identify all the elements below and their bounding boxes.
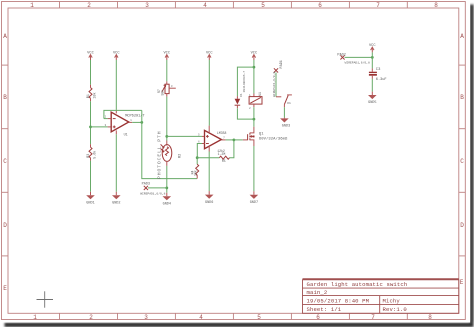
wire VCC6 to C3 <box>371 52 373 68</box>
supply VCC3 <box>163 52 170 60</box>
wire PAD3 to photocell bottom node <box>148 187 167 189</box>
svg-text:4: 4 <box>203 2 207 9</box>
svg-text:MCP6291/T: MCP6291/T <box>125 114 145 119</box>
svg-text:4: 4 <box>199 314 203 321</box>
junction U2 output node <box>233 139 236 142</box>
op-amp U2 <box>198 126 226 152</box>
relay coil K1 <box>249 92 262 110</box>
svg-text:D1: D1 <box>240 93 243 97</box>
svg-text:8: 8 <box>428 314 432 321</box>
svg-text:GND2: GND2 <box>112 201 120 205</box>
wire divider node to U1 plus input <box>91 126 112 128</box>
resistor R1 <box>87 85 98 101</box>
capacitor C3 <box>369 68 387 82</box>
svg-text:Sheet: 1/1: Sheet: 1/1 <box>307 306 342 313</box>
wire minus node to R5 <box>197 157 219 159</box>
wire R5 to U2 output node <box>230 140 234 158</box>
svg-text:WIREPAD1,6/0,8: WIREPAD1,6/0,8 <box>140 191 165 195</box>
ground GND6 <box>205 191 214 205</box>
wire VCC3 rail to trimmer <box>166 60 168 81</box>
svg-text:19/05/2017 8:40 PM: 19/05/2017 8:40 PM <box>307 298 370 305</box>
wire U1 feedback loop <box>104 110 142 118</box>
svg-text:1: 1 <box>30 2 34 9</box>
svg-text:R3: R3 <box>87 154 91 158</box>
wire PAD1 to relay contact <box>275 73 277 97</box>
svg-text:PAD2: PAD2 <box>337 53 345 57</box>
wire Q1 source to GND7 <box>253 146 255 191</box>
svg-text:A: A <box>3 33 7 40</box>
svg-text:GND1: GND1 <box>86 201 94 205</box>
svg-text:10k: 10k <box>193 170 197 176</box>
supply VCC5 <box>251 52 258 60</box>
svg-text:B: B <box>460 94 464 101</box>
junction relay top node <box>253 66 256 69</box>
svg-text:3: 3 <box>144 314 148 321</box>
svg-text:Rev:1.0: Rev:1.0 <box>383 306 408 313</box>
ground GND3 <box>280 118 290 129</box>
wire VCC4 rail to U2 power <box>208 60 210 126</box>
wire U2 output <box>221 139 234 141</box>
supply VCC6 <box>369 44 376 52</box>
supply VCC1 <box>87 52 94 60</box>
supply VCC2 <box>113 52 120 60</box>
svg-text:GND6: GND6 <box>205 201 213 205</box>
svg-text:6: 6 <box>316 314 320 321</box>
svg-text:2: 2 <box>89 314 93 321</box>
svg-text:B: B <box>3 94 7 101</box>
svg-text:3: 3 <box>145 2 149 9</box>
title block <box>303 279 459 313</box>
svg-text:main_2: main_2 <box>307 289 328 296</box>
wire U1 power to GND2 <box>115 134 117 192</box>
svg-text:C: C <box>3 158 7 165</box>
origin crosshair <box>37 291 54 307</box>
wire U1 output down and across to R4 <box>142 110 197 178</box>
svg-text:5.6k: 5.6k <box>93 151 98 159</box>
wire R1 to divider node <box>90 101 92 144</box>
svg-text:PHOTOCELL PTH: PHOTOCELL PTH <box>157 131 163 179</box>
junction divider node <box>89 126 92 129</box>
svg-text:7: 7 <box>376 2 380 9</box>
svg-text:PAD1: PAD1 <box>280 60 284 68</box>
svg-text:60V/32A/36mΩ: 60V/32A/36mΩ <box>259 136 288 141</box>
wirepad PAD1 <box>272 60 284 97</box>
svg-text:R5: R5 <box>222 159 226 163</box>
svg-text:D: D <box>460 222 464 229</box>
mosfet Q1 <box>248 127 288 146</box>
junction photocell top node <box>165 135 168 138</box>
wire contact common to GND3 <box>283 107 285 117</box>
svg-text:10k: 10k <box>93 92 98 98</box>
wire photocell node to U2 plus input <box>167 135 205 137</box>
resistor R4 <box>190 158 198 179</box>
wirepad PAD3 <box>140 183 165 196</box>
svg-text:U1: U1 <box>124 134 128 138</box>
wire relay top to diode branch <box>237 67 254 96</box>
supply VCC4 <box>206 52 213 60</box>
svg-text:5: 5 <box>261 2 265 9</box>
svg-text:1: 1 <box>33 314 37 321</box>
wire U2 power to GND6 <box>208 152 210 192</box>
svg-text:2: 2 <box>87 2 91 9</box>
wire PAD2 to VCC6 rail <box>345 56 373 58</box>
svg-text:6: 6 <box>318 2 322 9</box>
wirepad PAD2 <box>337 53 370 64</box>
svg-text:1.2M: 1.2M <box>218 152 226 156</box>
wire C3 to GND5 <box>371 79 373 92</box>
svg-text:D: D <box>3 222 7 229</box>
svg-text:Michy: Michy <box>383 298 401 305</box>
svg-text:Garden light automatic switch: Garden light automatic switch <box>307 281 408 288</box>
wire U1 minus input stub <box>104 118 111 120</box>
relay contact K1 <box>276 95 292 107</box>
photocell R2 <box>157 131 183 179</box>
svg-text:WIREPAD1,6/0,8: WIREPAD1,6/0,8 <box>345 60 370 64</box>
svg-text:6.3uF: 6.3uF <box>376 78 387 82</box>
svg-text:1N4148DO35-7: 1N4148DO35-7 <box>243 71 246 93</box>
svg-text:7: 7 <box>371 314 375 321</box>
wire diode bottom to relay bottom node <box>237 108 254 119</box>
svg-text:K1: K1 <box>287 102 291 105</box>
trimmer R7 <box>157 81 176 96</box>
svg-text:K1: K1 <box>258 92 262 96</box>
svg-text:A: A <box>460 33 464 40</box>
ground GND4 <box>163 193 172 207</box>
op-amp U1 <box>105 110 146 138</box>
svg-text:50k: 50k <box>160 90 164 96</box>
svg-text:GND7: GND7 <box>250 201 258 205</box>
ground GND1 <box>86 192 95 206</box>
wire VCC2 rail to U1 power <box>115 60 117 110</box>
svg-text:R2: R2 <box>179 154 183 158</box>
resistor R3 <box>87 144 98 161</box>
ground GND2 <box>112 192 121 206</box>
wire relay bottom to Q1 drain <box>253 107 255 119</box>
svg-text:E: E <box>3 285 7 292</box>
svg-text:C3: C3 <box>376 68 381 72</box>
wire trimmer to photocell <box>166 97 168 141</box>
diode D1 <box>235 71 246 109</box>
junction photocell bottom node <box>165 187 168 190</box>
wire U2 output to Q1 gate <box>234 139 248 141</box>
svg-text:GND4: GND4 <box>163 203 171 207</box>
resistor R5 <box>217 149 229 163</box>
junction U1 output node <box>140 121 143 124</box>
ground GND5 <box>368 92 377 106</box>
wire R3 to GND1 <box>90 161 92 192</box>
junction relay bottom node <box>253 118 256 121</box>
junction VCC6 node <box>371 56 374 59</box>
svg-text:PAD3: PAD3 <box>142 183 150 187</box>
svg-text:C: C <box>460 158 464 165</box>
wire VCC5 to relay node <box>253 60 255 94</box>
svg-text:R1: R1 <box>87 94 91 98</box>
svg-text:E: E <box>460 279 464 286</box>
svg-text:8: 8 <box>434 2 438 9</box>
wire U1 output <box>129 121 142 123</box>
wire U2 minus input to feedback node <box>197 144 204 158</box>
junction U2 minus node <box>196 156 199 159</box>
svg-text:GND5: GND5 <box>368 101 376 105</box>
svg-text:GND3: GND3 <box>282 125 290 129</box>
svg-text:5: 5 <box>257 314 261 321</box>
ground GND7 <box>250 191 259 205</box>
wire photocell to GND node <box>166 166 168 193</box>
svg-text:LM358: LM358 <box>217 131 227 135</box>
wire VCC1 rail to R1 <box>90 60 92 85</box>
svg-text:Q1: Q1 <box>259 132 264 136</box>
